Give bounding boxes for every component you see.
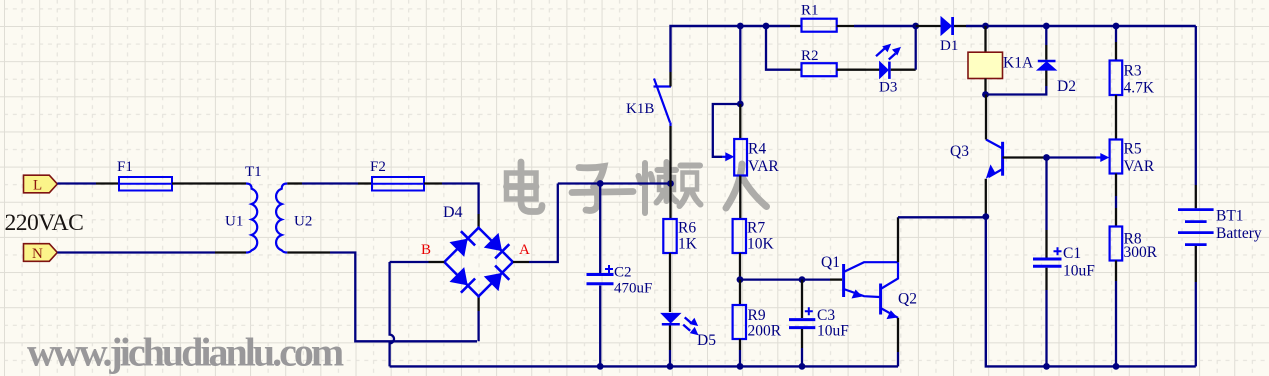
svg-text:K1B: K1B <box>626 101 654 117</box>
bridge rectifier D4 diamond <box>443 204 513 296</box>
wire R8 to ground rail <box>1115 261 1117 282</box>
svg-text:F1: F1 <box>117 159 133 175</box>
svg-text:200R: 200R <box>748 323 782 340</box>
junction K1A top <box>982 23 989 30</box>
svg-text:BT1: BT1 <box>1216 208 1244 225</box>
switch K1B <box>626 72 671 126</box>
svg-text:R4: R4 <box>748 141 766 158</box>
LED D5 <box>662 314 716 349</box>
potentiometer R5 <box>1110 140 1155 176</box>
wire R1 to D3 node <box>854 25 916 27</box>
wire R7 to base node <box>739 253 741 280</box>
junction R2 branch <box>763 23 770 30</box>
wire R2 branch drop <box>766 26 790 70</box>
wire Q1 Q2 collector riser <box>897 217 899 262</box>
resistor R7 <box>733 219 775 253</box>
svg-text:R6: R6 <box>678 220 696 237</box>
wire R4 to R7 <box>739 176 741 220</box>
watermark CJK 电 <box>507 162 543 212</box>
wire D5 to ground <box>669 326 671 351</box>
svg-text:Battery: Battery <box>1216 225 1262 242</box>
svg-text:VAR: VAR <box>748 158 779 175</box>
battery BT1 <box>1178 26 1262 366</box>
resistor R8 <box>1110 227 1158 262</box>
bridge diode bottom-right <box>485 266 510 291</box>
junction D5 ground <box>667 363 674 370</box>
junction R9 ground <box>737 363 744 370</box>
resistor R2 <box>790 48 866 76</box>
svg-text:K1A: K1A <box>1003 55 1034 72</box>
watermark CJK 子 <box>572 167 633 211</box>
port L <box>24 175 58 193</box>
svg-text:C2: C2 <box>614 265 632 281</box>
wire R6 to D5 <box>669 253 671 312</box>
junction C3 top <box>799 276 806 283</box>
svg-text:R7: R7 <box>747 220 765 237</box>
ground rail left <box>390 365 898 367</box>
wire L to F1 <box>57 182 96 184</box>
junction C2 top <box>597 180 604 187</box>
junction C3 ground <box>799 363 806 370</box>
junction R3 top <box>1113 23 1120 30</box>
junction D3 top <box>912 23 919 30</box>
svg-text:www.jichudianlu.com: www.jichudianlu.com <box>27 330 344 375</box>
svg-text:L: L <box>33 178 42 194</box>
bridge diode top-right <box>485 234 510 259</box>
junction K1B bottom <box>667 180 674 187</box>
wire B vertical with hop over AC wire <box>390 262 394 366</box>
svg-text:Q2: Q2 <box>898 291 917 308</box>
wire N to T1 <box>57 251 215 253</box>
svg-text:D1: D1 <box>940 38 958 54</box>
junction K1A bottom <box>982 91 989 98</box>
junction R7 R9 base node <box>737 276 744 283</box>
wire rail to D1 <box>916 25 941 27</box>
wire D1 to battery rail <box>966 25 1196 27</box>
wire Q3 collector to K1A bottom <box>985 95 987 140</box>
svg-text:T1: T1 <box>245 164 262 180</box>
svg-text:D2: D2 <box>1057 78 1076 95</box>
wire U2 bottom to bridge bottom <box>287 251 330 253</box>
wire Q3 emitter down <box>985 179 987 217</box>
wire bridge left to B vertical <box>429 261 445 263</box>
watermark CJK 懒 <box>639 162 701 213</box>
svg-text:R3: R3 <box>1124 63 1142 80</box>
svg-text:D3: D3 <box>879 80 897 96</box>
svg-text:N: N <box>32 246 43 262</box>
svg-text:VAR: VAR <box>1124 158 1155 175</box>
junction C1 ground <box>1043 363 1050 370</box>
junction R4 top <box>737 23 744 30</box>
relay coil K1A <box>968 26 1034 95</box>
svg-text:220VAC: 220VAC <box>5 210 84 236</box>
wire F1 to T1 <box>172 182 246 184</box>
junction Q3 emitter node <box>982 213 989 220</box>
svg-text:R9: R9 <box>748 307 766 324</box>
svg-text:R2: R2 <box>801 48 819 64</box>
junction R8 ground <box>1113 363 1120 370</box>
diode D2 <box>1038 26 1076 95</box>
svg-text:F2: F2 <box>370 159 386 175</box>
svg-text:470uF: 470uF <box>614 281 652 297</box>
resistor R1 <box>790 3 854 32</box>
junction D2 top <box>1043 23 1050 30</box>
svg-text:10uF: 10uF <box>817 323 849 340</box>
svg-text:10uF: 10uF <box>1063 263 1095 280</box>
wire R5 to R8 <box>1115 174 1117 197</box>
port N <box>24 244 58 262</box>
fuse F1 <box>117 159 172 191</box>
svg-text:4.7K: 4.7K <box>1124 80 1155 97</box>
svg-text:D5: D5 <box>697 332 716 349</box>
svg-text:U1: U1 <box>225 214 243 230</box>
svg-text:Q1: Q1 <box>821 254 840 271</box>
wire Q2 emitter to ground rail <box>897 318 899 352</box>
wire F2 to bridge top <box>424 182 442 184</box>
svg-text:U2: U2 <box>294 214 312 230</box>
junction R4 loop <box>737 101 744 108</box>
potentiometer R4 <box>734 104 779 176</box>
wire collector riser to Q3 emitter node <box>898 216 986 218</box>
transistor Q3 <box>950 140 1003 179</box>
resistor R6 <box>663 184 697 254</box>
wire K1A bottom to D2 anode <box>986 86 1047 95</box>
wire K1B up to rail corner <box>671 26 791 72</box>
wire D3 cathode up to rail <box>915 26 917 70</box>
capacitor C3 <box>789 280 849 367</box>
svg-text:B: B <box>421 242 431 258</box>
wire rail to R4 <box>739 26 741 104</box>
svg-text:R1: R1 <box>801 3 819 19</box>
svg-text:R5: R5 <box>1124 141 1142 158</box>
wire base node to Q1 <box>740 278 830 280</box>
LED D3 <box>866 44 916 95</box>
svg-text:300R: 300R <box>1124 244 1158 261</box>
wire R3 to R5 <box>1115 95 1117 140</box>
svg-text:C3: C3 <box>817 307 835 324</box>
svg-text:1K: 1K <box>678 236 698 253</box>
capacitor C2 <box>587 184 653 367</box>
svg-text:A: A <box>519 242 530 258</box>
watermark CJK 人 <box>726 164 767 208</box>
resistor R9 <box>733 280 782 367</box>
bridge diode top-left <box>451 231 476 256</box>
transformer T1 winding U1 <box>225 184 257 253</box>
svg-text:C1: C1 <box>1063 245 1081 262</box>
transistor Q2 <box>881 262 917 319</box>
wire Q3 emitter node down to right ground rail <box>986 217 1196 367</box>
svg-text:10K: 10K <box>747 236 775 253</box>
wire A rail to C2 and K1B column <box>558 182 671 184</box>
svg-text:Q3: Q3 <box>950 143 969 160</box>
wire R4 rheostat loop <box>713 104 741 157</box>
potentiometer R5 wiper arrow <box>1096 156 1103 158</box>
fuse F2 <box>370 159 424 191</box>
wire Q3 base to R5 wiper <box>1003 156 1047 158</box>
junction C2 ground <box>597 363 604 370</box>
resistor R3 <box>1110 26 1155 97</box>
svg-text:D4: D4 <box>443 204 463 221</box>
wire U2 top to F2 <box>287 182 302 184</box>
bridge diode bottom-left <box>451 268 476 293</box>
diode D1 <box>940 17 966 54</box>
top power rail <box>669 126 671 184</box>
capacitor C1 <box>1033 158 1095 367</box>
transistor Q1 <box>821 254 898 299</box>
transformer T1 winding U2 <box>276 184 312 253</box>
potentiometer R4 wiper arrow <box>722 156 728 158</box>
wire bridge right to A riser <box>513 261 529 263</box>
